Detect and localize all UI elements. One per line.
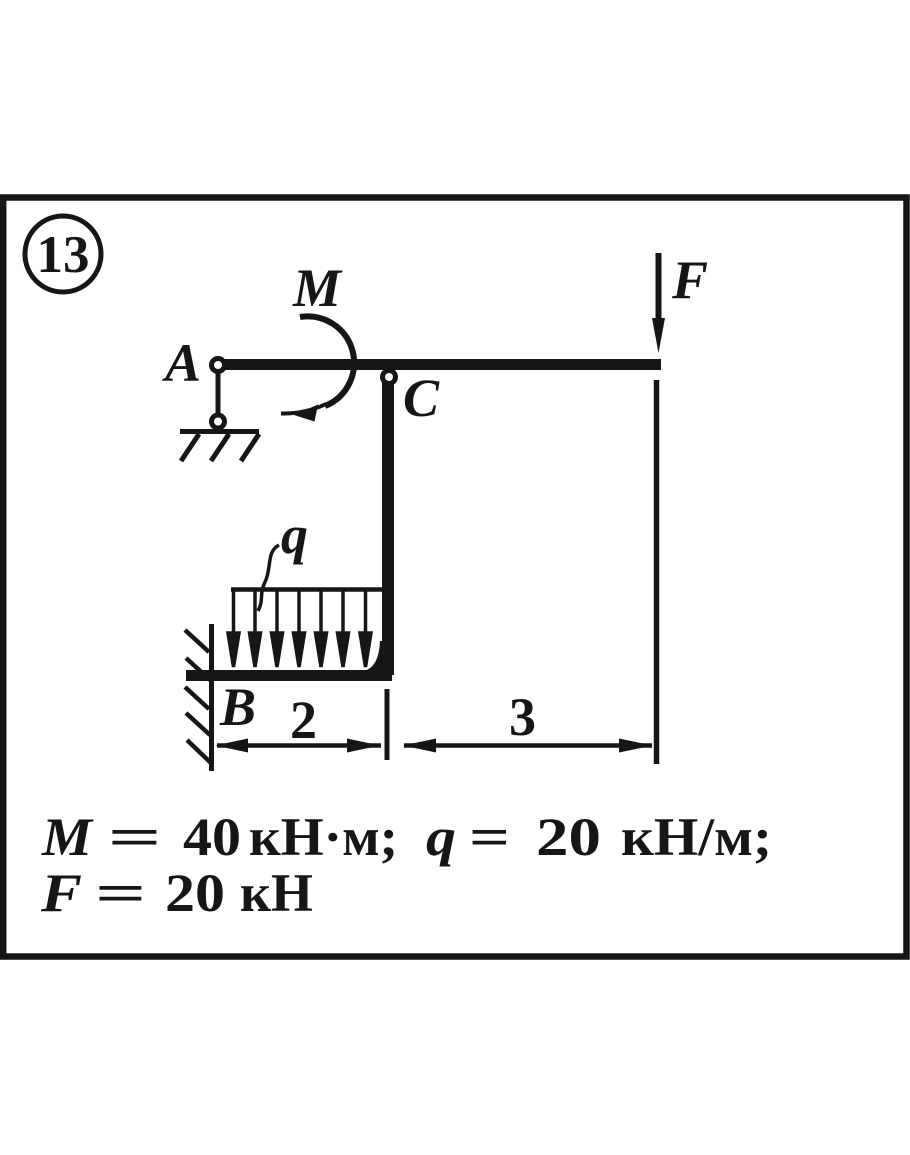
dimension line 2 [215, 739, 381, 753]
pin joint A [212, 359, 225, 372]
force F arrow [652, 253, 665, 353]
distributed load q top line [231, 587, 388, 592]
moment arrowhead [294, 405, 318, 422]
svg-text:3: 3 [509, 687, 536, 747]
wall line at B [209, 624, 214, 771]
svg-text:=: = [95, 864, 146, 924]
dimension line 3 [403, 739, 653, 753]
svg-text:F: F [671, 250, 708, 310]
support link under A [216, 372, 221, 416]
ground hatching under A [181, 434, 259, 461]
lower pin of support A [212, 415, 225, 428]
moment arc tail [281, 404, 326, 414]
task number badge 13 [25, 216, 101, 292]
beam A-C-right (horizontal) [225, 359, 661, 370]
svg-text:=: = [469, 807, 510, 867]
extension line under F [654, 380, 660, 764]
svg-text:q: q [281, 505, 308, 565]
svg-text:F20кН: F20кН [40, 863, 313, 923]
moment arc M [300, 316, 354, 406]
dimension tick under C [385, 689, 390, 760]
svg-text:C: C [403, 368, 440, 428]
svg-text:B: B [219, 677, 256, 737]
svg-text:13: 13 [37, 226, 90, 284]
wall hatching at B [185, 630, 211, 763]
svg-text:2: 2 [290, 690, 317, 750]
svg-text:A: A [162, 333, 201, 393]
beam B (bottom horizontal) [186, 670, 392, 681]
member C-B (vertical) [382, 383, 394, 675]
ground line under support A [180, 429, 259, 434]
svg-text:=: = [108, 807, 162, 867]
border frame [3, 198, 906, 957]
distributed load arrows [228, 588, 371, 667]
node C pin [383, 371, 396, 384]
svg-text:M: M [292, 258, 343, 318]
leader squiggle from q [258, 545, 279, 611]
corner fillet at member base [364, 641, 393, 671]
